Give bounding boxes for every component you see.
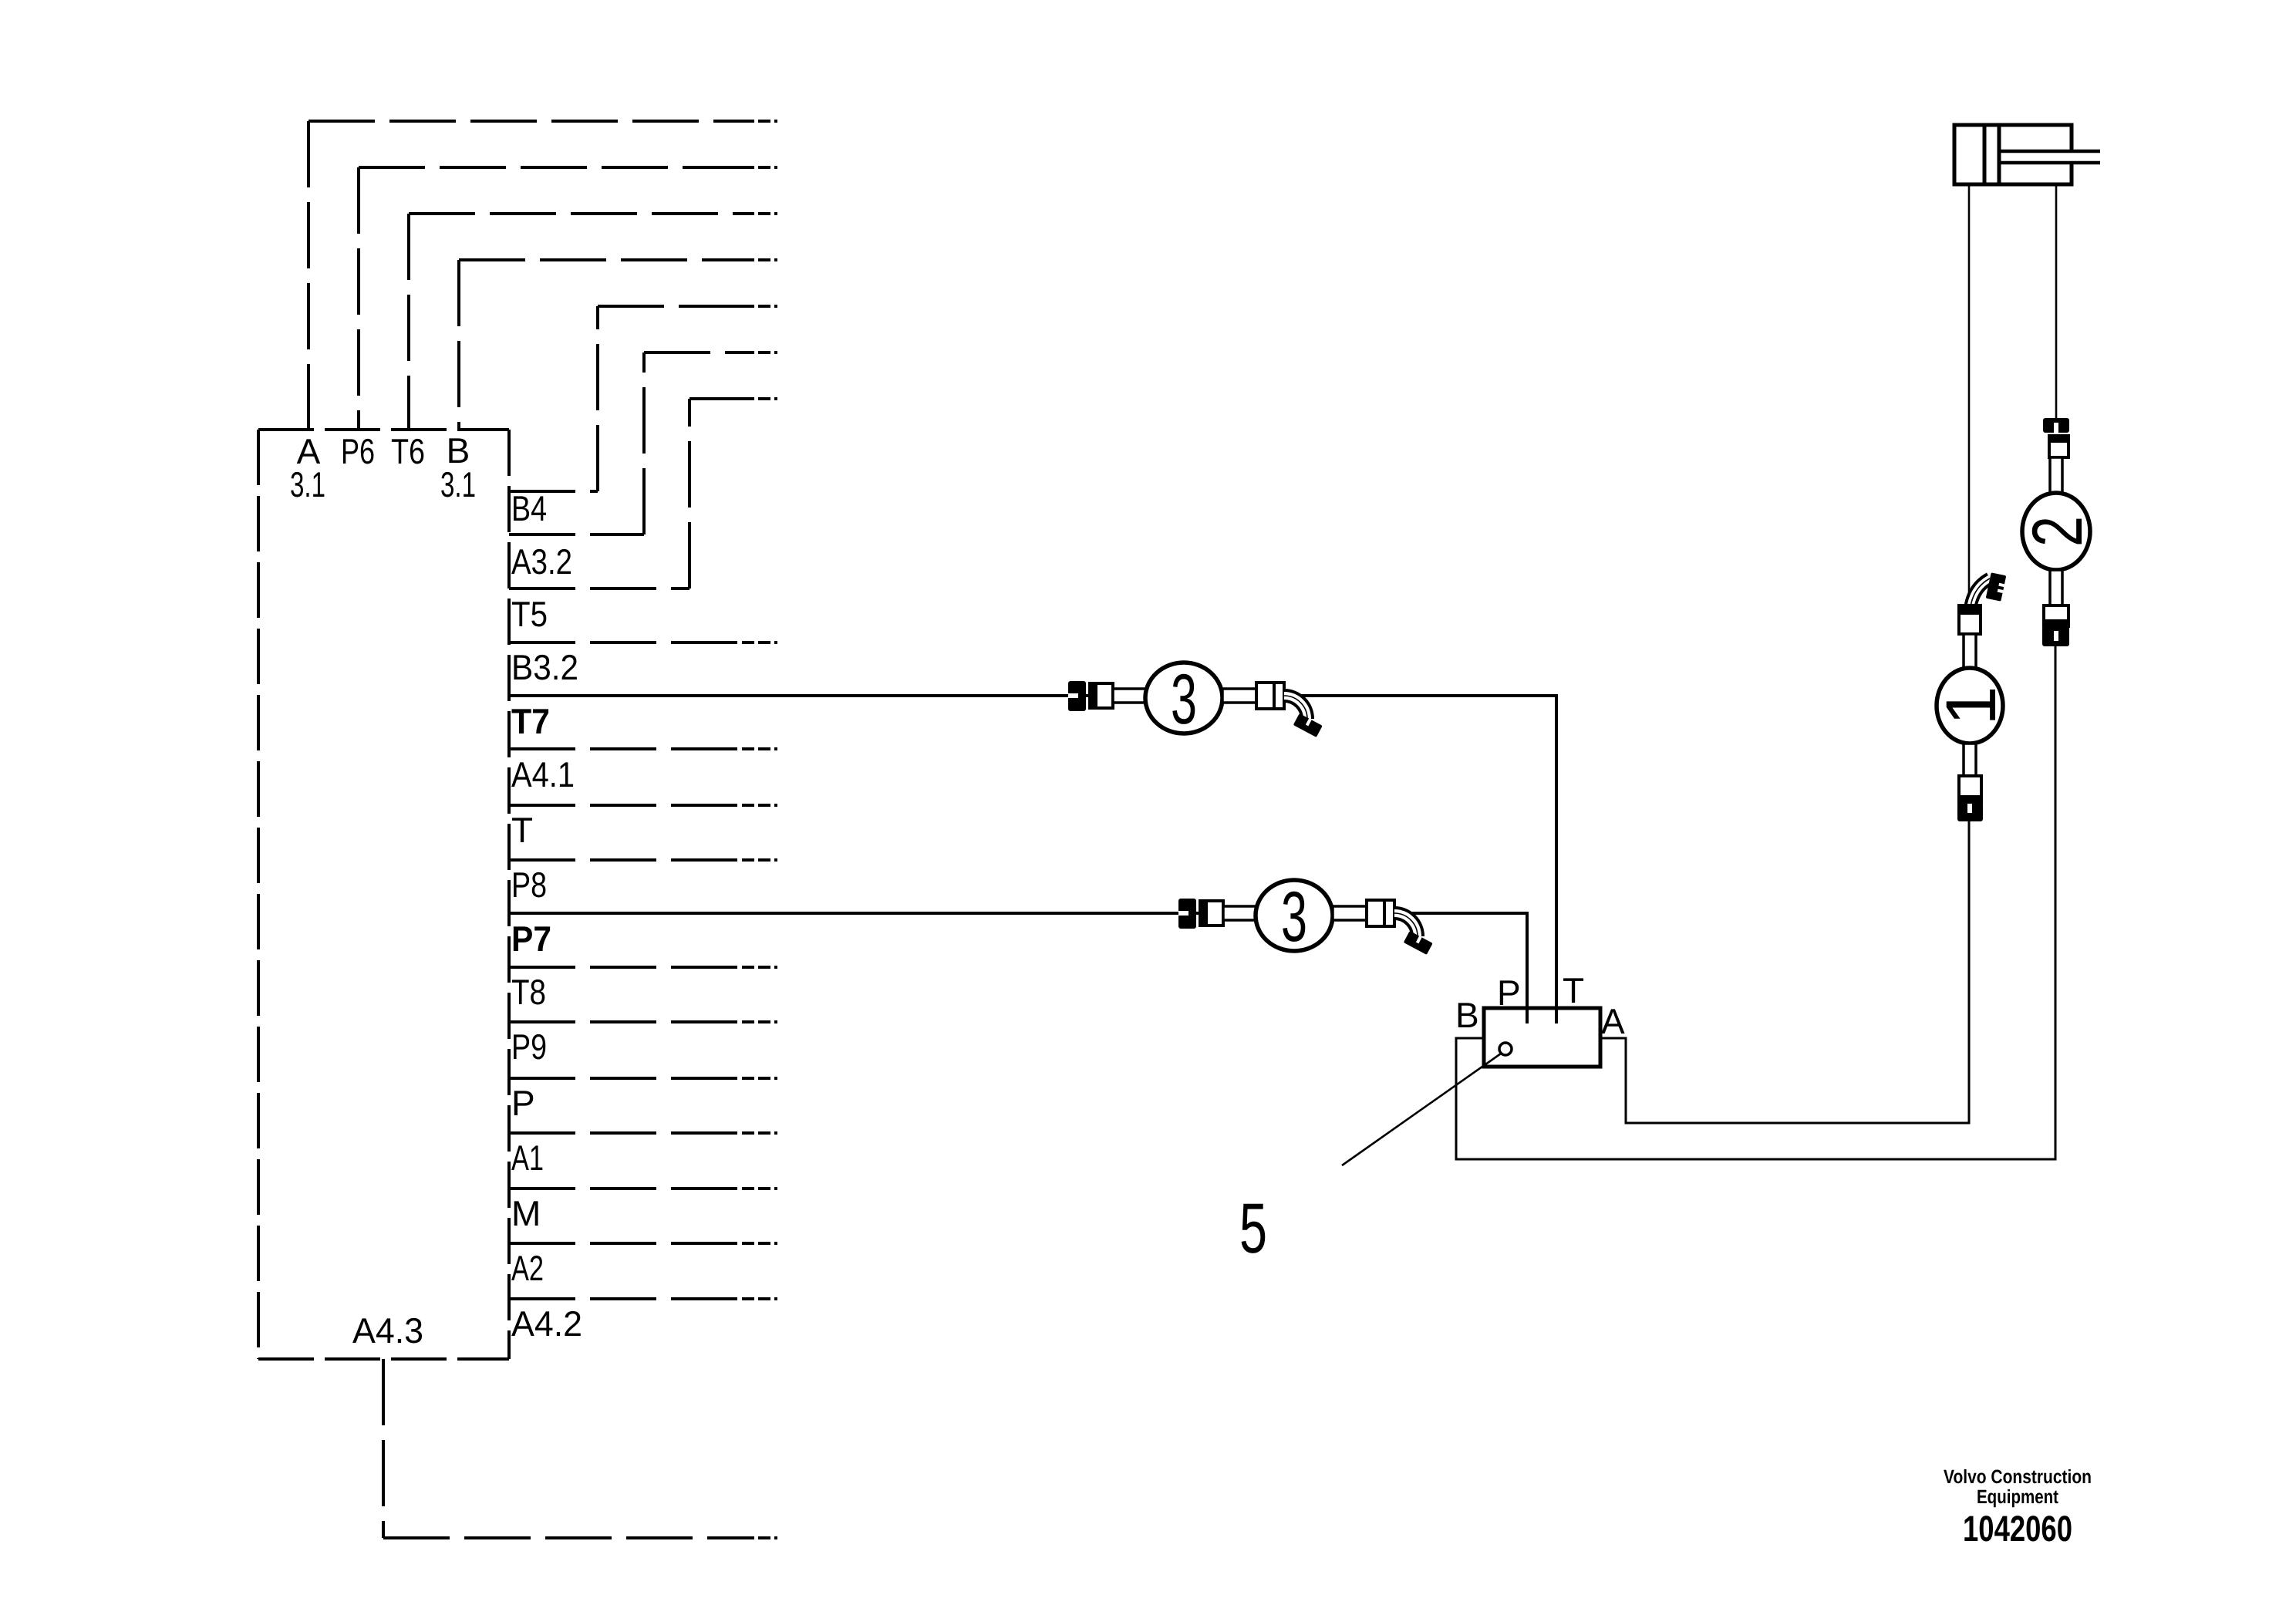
wire port A1 <box>509 1131 742 1135</box>
wire port B4 right/up/right (horizontal from block) <box>509 490 598 493</box>
wire port M <box>509 1187 742 1190</box>
wire port T termination <box>742 804 777 807</box>
wire port A3.2 right/up/right (vertical) <box>642 352 646 534</box>
wire port P <box>509 1077 742 1080</box>
pipe valve A to hose 1 bottom <box>1600 821 1969 1123</box>
wire port B3.2 termination <box>742 641 777 644</box>
wire port P6 up/right (vertical) <box>357 167 360 430</box>
wire T7 solid (to valve port T) <box>509 696 1556 1023</box>
valve mounting hole <box>1499 1043 1512 1055</box>
wire port A1 termination <box>742 1131 777 1135</box>
hose assembly 2 <box>2018 418 2097 646</box>
wire port P9 termination <box>742 1020 777 1023</box>
wire port T <box>509 804 742 807</box>
svg-text:A4.1: A4.1 <box>511 754 575 794</box>
wire port T6 up/right (horizontal) <box>409 212 742 215</box>
wire port A3.2 right/up/right (horizontal from block) <box>509 533 644 536</box>
svg-text:3: 3 <box>1171 660 1197 739</box>
cylinder piston <box>1984 125 1999 184</box>
wire port A2 <box>509 1242 742 1245</box>
svg-text:T: T <box>511 810 533 850</box>
wire port A4.1 termination <box>742 747 777 750</box>
svg-text:A2: A2 <box>511 1248 544 1288</box>
wire port A4.3 termination <box>742 1536 777 1539</box>
wire port B3.2 <box>509 641 742 644</box>
pipe valve B to hose 2 bottom <box>1456 646 2055 1159</box>
svg-text:P9: P9 <box>511 1027 547 1067</box>
svg-text:B3.2: B3.2 <box>511 647 578 687</box>
leader line to item 5 <box>1342 1054 1501 1165</box>
valve block 5 body <box>1484 1008 1600 1067</box>
wire port P termination <box>742 1077 777 1080</box>
manifold block outline: right edge <box>507 430 511 1359</box>
wire port P6 up/right termination <box>742 166 777 169</box>
wire port B4 right/up/right (horizontal top) <box>598 305 742 308</box>
wire port P9 <box>509 1020 742 1023</box>
svg-text:A4.2: A4.2 <box>511 1303 582 1344</box>
svg-text:3.1: 3.1 <box>440 464 476 504</box>
svg-text:T8: T8 <box>511 972 546 1012</box>
svg-text:3.1: 3.1 <box>290 464 325 504</box>
svg-text:1: 1 <box>1932 686 2011 725</box>
pipe cylinder piston side down to hose 1 <box>1968 184 1971 608</box>
wire port B4 right/up/right termination <box>742 305 777 308</box>
wire port P8 <box>509 858 742 862</box>
manifold block outline: left edge <box>257 430 260 1359</box>
wire port A4.1 <box>509 747 742 750</box>
svg-text:P6: P6 <box>341 431 375 471</box>
hose assembly 3 (T7 line) <box>1068 660 1323 739</box>
wire port A3.2 right/up/right (horizontal top) <box>644 351 742 354</box>
wire port A4.2 <box>509 1297 742 1300</box>
svg-text:T7: T7 <box>511 701 550 741</box>
svg-text:P8: P8 <box>511 865 547 905</box>
svg-text:A3.2: A3.2 <box>511 541 572 582</box>
wire port B4 right/up/right (vertical) <box>596 306 599 491</box>
hose assembly 1 <box>1932 572 2011 821</box>
wire port M termination <box>742 1187 777 1190</box>
wire port T5 right/up/right (horizontal from block) <box>509 587 689 590</box>
wire port A up/right (vertical) <box>307 121 310 430</box>
svg-text:T5: T5 <box>511 594 548 634</box>
wire port T6 up/right termination <box>742 212 777 215</box>
wire port A4.3 (horizontal) <box>383 1536 742 1539</box>
svg-text:5: 5 <box>1239 1189 1267 1268</box>
wire port A up/right (horizontal) <box>308 120 742 123</box>
wire port A4.2 termination <box>742 1297 777 1300</box>
wire port T5 right/up/right termination <box>742 397 777 400</box>
wire port A3.2 right/up/right termination <box>742 351 777 354</box>
wire port T8 termination <box>742 966 777 969</box>
svg-text:A1: A1 <box>511 1138 544 1178</box>
svg-text:B: B <box>1455 995 1479 1035</box>
svg-text:A: A <box>1601 1001 1625 1041</box>
valve port line P into valve <box>1526 1008 1529 1023</box>
wire port P6 up/right (horizontal) <box>359 166 742 169</box>
manifold block outline: bottom edge <box>258 1357 509 1361</box>
cylinder piston rod <box>1999 151 2100 163</box>
wire port B up/right (vertical) <box>457 260 460 430</box>
svg-text:P: P <box>511 1083 535 1123</box>
wire port P8 termination <box>742 858 777 862</box>
wire port A4.3 (vertical) <box>382 1359 385 1538</box>
svg-text:Volvo Construction: Volvo Construction <box>1944 1466 2092 1488</box>
svg-text:A4.3: A4.3 <box>352 1310 423 1351</box>
svg-text:2: 2 <box>2018 516 2097 547</box>
svg-text:T6: T6 <box>391 431 425 471</box>
wire port A up/right termination <box>742 120 777 123</box>
svg-text:B4: B4 <box>511 488 547 528</box>
svg-text:P: P <box>1497 973 1521 1013</box>
manifold block outline: top edge <box>258 428 509 431</box>
wire port A2 termination <box>742 1242 777 1245</box>
svg-text:3: 3 <box>1281 878 1307 956</box>
wire port B up/right termination <box>742 258 777 261</box>
pipe cylinder rod side down to hose 2 <box>2055 184 2058 418</box>
svg-text:1042060: 1042060 <box>1963 1508 2072 1549</box>
hydraulic cylinder body <box>1954 125 2072 184</box>
wire port T6 up/right (vertical) <box>407 214 410 430</box>
svg-text:Equipment: Equipment <box>1977 1486 2059 1508</box>
valve port line T into valve <box>1555 1008 1558 1023</box>
wire port T8 <box>509 966 742 969</box>
svg-text:T: T <box>1563 970 1584 1010</box>
wire port B up/right (horizontal) <box>459 258 742 261</box>
wire port T5 right/up/right (vertical) <box>688 399 691 588</box>
svg-text:M: M <box>511 1193 541 1233</box>
wire port T5 right/up/right (horizontal top) <box>689 397 742 400</box>
hose assembly 3 (P7 line) <box>1178 878 1433 956</box>
svg-text:P7: P7 <box>511 919 551 959</box>
cylinder rod gap <box>2068 153 2075 161</box>
wire P7 solid (to valve port P) <box>509 913 1527 1023</box>
